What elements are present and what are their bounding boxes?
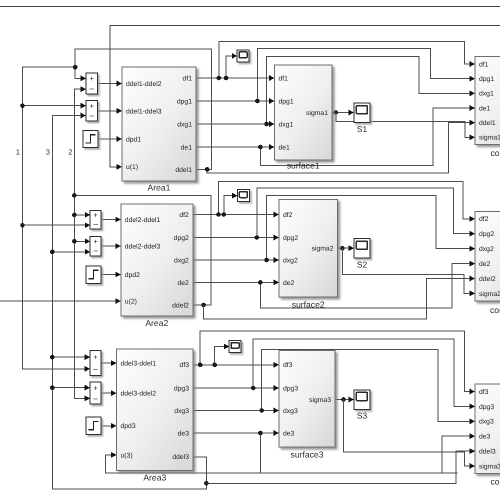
svg-text:surface3: surface3 — [291, 450, 324, 460]
arrowhead into Sum3a minus port — [85, 366, 90, 372]
arrowhead into surface3 dpg3 port — [274, 385, 279, 391]
arrowhead into Sum3b plus port — [85, 385, 90, 391]
scope block T1 — [237, 50, 249, 62]
arrowhead into Area1 in2 — [117, 108, 122, 114]
svg-text:S1: S1 — [357, 124, 368, 134]
svg-text:2: 2 — [68, 148, 72, 157]
junction dpg2 junction — [254, 235, 259, 240]
wire de3 branch to controller3 — [260, 433, 475, 473]
junction df1 junction a — [217, 76, 222, 81]
svg-text:ddel3: ddel3 — [172, 454, 189, 461]
svg-text:–: – — [93, 246, 98, 255]
wire ddel1 to Sum1b plus — [23, 105, 87, 107]
wire ddel3 to Sum3b plus — [52, 387, 90, 389]
wire step2 output to Area2 — [101, 274, 121, 276]
svg-text:Area1: Area1 — [148, 183, 171, 193]
junction dxg2 junction — [264, 258, 269, 263]
arrowhead into surface1 df1 port — [269, 75, 274, 81]
arrowhead into surface3 df3 port — [274, 362, 279, 368]
svg-text:ddel1: ddel1 — [175, 167, 192, 174]
svg-text:de2: de2 — [283, 280, 295, 287]
svg-text:sigma1: sigma1 — [479, 135, 500, 142]
subsystem block controller1 — [475, 57, 500, 145]
junction line2 tap row2b — [72, 239, 77, 244]
subsystem block controller3 — [475, 384, 500, 473]
junction sigma3 junction — [341, 397, 346, 402]
subsystem block Area2 — [121, 204, 193, 316]
wire ddel2 up branch to Sum1a minus — [74, 89, 86, 195]
svg-text:dpg3: dpg3 — [283, 385, 298, 392]
svg-text:df3: df3 — [479, 389, 489, 396]
arrowhead into controller3 ddel3 port — [470, 448, 475, 454]
svg-text:+: + — [94, 211, 98, 220]
svg-text:Area3: Area3 — [143, 473, 166, 483]
arrowhead into controller2 dxg2 port — [470, 246, 475, 252]
svg-text:surface2: surface2 — [292, 299, 325, 309]
arrowhead into controller1 sigma1 port — [470, 134, 475, 140]
subsystem block surface3 — [279, 351, 335, 448]
arrowhead into Sum1a plus port — [81, 76, 86, 82]
wire ddel2 to Sum2a plus — [74, 214, 90, 216]
wire dpg3 branch to controller3 — [253, 339, 475, 406]
svg-text:dpg3: dpg3 — [479, 404, 494, 411]
wire u2 feedback into Area2 — [0, 300, 121, 302]
svg-text:–: – — [93, 219, 98, 228]
svg-text:sigma3: sigma3 — [479, 463, 500, 470]
svg-text:ddel3-ddel2: ddel3-ddel2 — [121, 391, 157, 398]
arrowhead into scope S1 input — [349, 110, 354, 116]
wire sigma2 branch to controller2 — [342, 248, 475, 293]
wire de3 to surface3 — [193, 432, 279, 434]
wire ddel2 to Sum2b plus — [74, 240, 90, 242]
junction df2 junction a — [216, 212, 221, 217]
svg-text:–: – — [90, 84, 95, 93]
junction ddel1 split — [73, 65, 78, 70]
arrowhead into controller3 df3 port — [470, 389, 475, 395]
svg-text:df2: df2 — [283, 212, 293, 219]
sum block Sum1a — [86, 73, 98, 94]
wire sigma1 branch to controller1 — [336, 113, 475, 138]
wire dxg3 to surface3 — [193, 410, 279, 412]
step source block Step3 dpd3 — [86, 417, 101, 434]
svg-text:dxg1: dxg1 — [177, 121, 192, 128]
arrowhead into scope S3 input — [349, 397, 354, 403]
wire de2 branch to controller2 — [260, 264, 475, 309]
svg-text:sigma2: sigma2 — [312, 246, 334, 253]
svg-text:controller2: controller2 — [490, 305, 500, 315]
wire dpg1 to surface1 — [196, 100, 275, 102]
sum block Sum2b — [90, 237, 101, 256]
wire sum1b output to Area1 — [98, 110, 123, 112]
arrowhead into Area3 in2 — [111, 390, 116, 396]
arrowhead into Sum3a plus port — [85, 354, 90, 360]
svg-text:sigma3: sigma3 — [309, 397, 331, 404]
svg-text:ddel2: ddel2 — [479, 276, 496, 283]
svg-text:df2: df2 — [479, 216, 489, 223]
arrowhead into controller2 df2 port — [470, 216, 475, 222]
arrowhead into scope T1 input — [232, 53, 237, 59]
arrowhead into controller1 dpg1 port — [470, 76, 475, 82]
arrowhead into Sum2b plus port — [85, 238, 90, 244]
wire sigma1 to scope S1 — [332, 112, 354, 114]
svg-text:dxg1: dxg1 — [279, 121, 294, 128]
junction ddel2 junction — [201, 303, 206, 308]
svg-text:sigma1: sigma1 — [306, 110, 328, 117]
scope block S1 — [354, 103, 370, 123]
svg-text:dxg2: dxg2 — [174, 257, 189, 264]
wire dxg2 to surface2 — [193, 259, 279, 261]
arrowhead into Area1 in3 — [117, 136, 122, 142]
wire sum3b output to Area3 — [101, 392, 117, 394]
sum block Sum3a — [90, 351, 101, 376]
svg-text:3: 3 — [46, 148, 50, 157]
wire step1 output to Area1 — [98, 138, 122, 140]
svg-text:de1: de1 — [479, 105, 491, 112]
svg-text:ddel2: ddel2 — [172, 302, 189, 309]
arrowhead into controller1 ddel1 port — [470, 120, 475, 126]
svg-text:de2: de2 — [177, 280, 189, 287]
svg-text:de3: de3 — [178, 430, 190, 437]
svg-text:dpg3: dpg3 — [174, 385, 189, 392]
arrowhead into Area2 u(2) port — [115, 298, 120, 304]
junction de1 junction — [258, 145, 263, 150]
wire ddel1 branch to line 1 — [23, 67, 91, 369]
sum block Sum3b — [90, 382, 101, 404]
svg-text:dxg2: dxg2 — [283, 257, 298, 264]
arrowhead into controller2 de2 port — [470, 261, 475, 267]
arrowhead into surface2 de2 port — [274, 280, 279, 286]
svg-text:de3: de3 — [283, 430, 295, 437]
svg-text:controller1: controller1 — [491, 148, 500, 158]
svg-text:dxg2: dxg2 — [479, 246, 494, 253]
wire ddel1 to controller1 — [207, 123, 475, 173]
arrowhead into controller3 dpg3 port — [470, 404, 475, 410]
wire df2 to surface2 — [193, 214, 279, 216]
svg-text:+: + — [90, 101, 94, 110]
junction line3 tap row2 — [50, 250, 55, 255]
wire u3 feedback into Area3 — [106, 455, 458, 473]
subsystem block surface1 — [275, 65, 333, 160]
wire sum3a output to Area3 — [101, 362, 117, 364]
wire de2 to surface2 — [193, 281, 279, 283]
svg-text:dpd3: dpd3 — [121, 423, 136, 430]
junction df3 junction a — [198, 363, 203, 368]
arrowhead into controller2 sigma2 port — [470, 291, 475, 297]
arrowhead into surface2 df2 port — [274, 212, 279, 218]
arrowhead into surface3 de3 port — [274, 430, 279, 436]
wire ddel2 loop from Area2 output — [74, 195, 211, 398]
junction df3 junction b — [212, 363, 217, 368]
svg-text:1: 1 — [16, 148, 20, 157]
svg-text:de3: de3 — [479, 434, 491, 441]
wire df3 branch to controller3 — [200, 331, 475, 392]
sum block Sum2a — [90, 210, 101, 229]
wire ddel3 to Sum2b minus — [52, 251, 90, 253]
svg-text:ddel2-ddel3: ddel2-ddel3 — [125, 244, 161, 251]
wire df2 branch to scope T2 — [224, 196, 238, 215]
arrowhead into Sum1b plus port — [81, 103, 86, 109]
svg-text:df1: df1 — [183, 75, 193, 82]
arrowhead into controller2 dpg2 port — [470, 231, 475, 237]
arrowhead into Area1 u(1) port — [117, 164, 122, 170]
junction dpg3 junction — [251, 386, 256, 391]
svg-text:–: – — [90, 111, 95, 120]
wire sum2b output to Area2 — [101, 245, 121, 247]
scope block S3 — [354, 390, 370, 410]
svg-text:de2: de2 — [479, 261, 491, 268]
svg-text:surface1: surface1 — [287, 161, 320, 171]
scope block T3 — [229, 341, 241, 353]
wire de1 to surface1 — [196, 146, 275, 148]
wire dxg2 branch to controller2 — [267, 196, 475, 261]
svg-text:dpg2: dpg2 — [283, 235, 298, 242]
wire df1 branch to scope T1 — [226, 56, 237, 78]
wire u2 feedback top segment — [0, 6, 500, 8]
wire df1 to surface1 — [196, 77, 275, 79]
arrowhead into controller1 df1 port — [470, 61, 475, 67]
svg-text:+: + — [93, 352, 97, 361]
arrowhead into surface2 dpg2 port — [274, 235, 279, 241]
svg-text:df1: df1 — [279, 75, 289, 82]
junction line3 tap row3b — [50, 385, 55, 390]
subsystem block Area1 — [122, 67, 196, 181]
arrowhead into surface1 dpg1 port — [269, 98, 274, 104]
scope block T2 — [238, 190, 250, 202]
arrowhead into Sum2a plus port — [85, 212, 90, 218]
wire de1 branch to controller1 — [260, 108, 475, 166]
svg-text:dpg1: dpg1 — [177, 98, 192, 105]
wire df2 branch to controller2 — [219, 181, 476, 219]
arrowhead into controller2 ddel2 port — [470, 276, 475, 282]
arrowhead into Area3 in3 — [111, 423, 116, 429]
junction ddel2 split — [72, 193, 77, 198]
wire ddel3 to Sum3a plus — [52, 356, 90, 358]
junction sigma1 junction — [334, 110, 339, 115]
wire dxg3 branch to controller3 — [262, 350, 475, 422]
svg-text:ddel3: ddel3 — [479, 449, 496, 456]
svg-text:dpg2: dpg2 — [174, 235, 189, 242]
svg-text:S2: S2 — [357, 260, 368, 270]
arrowhead into controller3 dxg3 port — [470, 418, 475, 424]
junction dpg1 junction — [255, 99, 260, 104]
arrowhead into surface1 dxg1 port — [269, 121, 274, 127]
svg-text:ddel1: ddel1 — [479, 120, 496, 127]
arrowhead into scope T3 input — [224, 344, 229, 350]
junction de3 junction — [258, 431, 263, 436]
wire ddel1 loop from Area1 output — [75, 49, 211, 169]
svg-text:+: + — [94, 237, 98, 246]
junction ddel3 junction — [204, 481, 209, 486]
wire dpg1 branch to controller1 — [257, 48, 475, 101]
arrowhead into Sum3b minus port — [85, 396, 90, 402]
svg-text:df3: df3 — [180, 362, 190, 369]
step source block Step1 dpd1 — [83, 131, 98, 148]
arrowhead into surface2 dxg2 port — [274, 257, 279, 263]
svg-text:df2: df2 — [179, 212, 189, 219]
svg-text:u(1): u(1) — [126, 164, 138, 171]
arrowhead into surface1 de1 port — [269, 144, 274, 150]
wire ddel2 to controller2 — [204, 279, 475, 320]
svg-text:–: – — [93, 394, 98, 403]
subsystem block controller2 — [475, 211, 500, 300]
svg-text:Area2: Area2 — [145, 318, 168, 328]
junction line1 tap row2 — [20, 223, 25, 228]
wire dxg1 branch to controller1 — [267, 56, 475, 124]
svg-text:df3: df3 — [283, 362, 293, 369]
svg-text:dpg1: dpg1 — [479, 76, 494, 83]
svg-text:–: – — [93, 365, 98, 374]
subsystem block Area3 — [117, 349, 194, 471]
junction df2 junction b — [222, 212, 227, 217]
svg-text:dpd2: dpd2 — [125, 272, 140, 279]
sum block Sum1b — [86, 101, 98, 121]
junction sigma2 junction — [340, 246, 345, 251]
arrowhead into Sum1a minus port — [81, 86, 86, 92]
junction line1 tap row1 — [20, 103, 25, 108]
arrowhead into Sum2b minus port — [85, 249, 90, 255]
svg-text:dpd1: dpd1 — [126, 136, 141, 143]
svg-text:ddel2-ddel1: ddel2-ddel1 — [125, 217, 161, 224]
svg-text:dpg2: dpg2 — [479, 231, 494, 238]
junction de2 junction — [258, 280, 263, 285]
wire ddel3 loop from Area3 output — [52, 116, 206, 489]
svg-text:dxg3: dxg3 — [479, 419, 494, 426]
svg-text:controller3: controller3 — [491, 477, 500, 487]
arrowhead into controller3 de3 port — [470, 433, 475, 439]
arrowhead into controller1 dxg1 port — [470, 90, 475, 96]
arrowhead into Area1 in1 — [117, 81, 122, 87]
arrowhead into Area3 in1 — [111, 360, 116, 366]
junction line2 tap row2a — [72, 213, 77, 218]
junction dxg1 junction — [264, 122, 269, 127]
arrowhead into controller1 de1 port — [470, 105, 475, 111]
wire u1 feedback from controller1 — [110, 26, 500, 167]
wire sum1a output to Area1 — [98, 83, 123, 85]
svg-text:de1: de1 — [279, 144, 291, 151]
arrowhead into surface3 dxg3 port — [274, 408, 279, 414]
wire sigma3 branch to controller3 — [344, 400, 476, 467]
wire dxg1 to surface1 — [196, 123, 275, 125]
svg-text:dxg3: dxg3 — [283, 408, 298, 415]
arrowhead into Area3 u(3) port — [111, 452, 116, 458]
wire sigma2 to scope S2 — [338, 247, 355, 249]
svg-text:S3: S3 — [357, 411, 368, 421]
svg-text:de1: de1 — [181, 144, 193, 151]
junction ddel1 junction — [205, 167, 210, 172]
svg-text:dxg1: dxg1 — [479, 91, 494, 98]
wire dpg3 to surface3 — [193, 387, 279, 389]
svg-text:+: + — [93, 383, 97, 392]
svg-text:dpg1: dpg1 — [279, 98, 294, 105]
wire sigma3 to scope S3 — [335, 399, 354, 401]
subsystem block surface2 — [279, 200, 338, 298]
arrowhead into Area2 in3 — [115, 272, 120, 278]
junction line3 tap row3a — [50, 355, 55, 360]
svg-text:df1: df1 — [479, 61, 489, 68]
wire sum2a output to Area2 — [101, 219, 121, 221]
svg-text:ddel1-ddel2: ddel1-ddel2 — [126, 81, 162, 88]
svg-text:u(3): u(3) — [121, 452, 133, 459]
svg-text:sigma2: sigma2 — [479, 291, 500, 298]
arrowhead into scope S2 input — [349, 245, 354, 251]
arrowhead into Sum2a minus port — [85, 222, 90, 228]
svg-text:ddel3-ddel1: ddel3-ddel1 — [121, 361, 157, 368]
wire dpg2 to surface2 — [193, 237, 279, 239]
arrowhead into Sum1b minus port — [81, 113, 86, 119]
wire ddel3 to controller3 — [206, 451, 475, 483]
svg-text:ddel1-ddel3: ddel1-ddel3 — [126, 108, 162, 115]
wire df1 branch to controller1 — [219, 42, 475, 79]
step source block Step2 dpd2 — [86, 266, 101, 283]
arrowhead into Area2 in2 — [115, 243, 120, 249]
arrowhead into controller3 sigma3 port — [470, 463, 475, 469]
svg-text:+: + — [90, 74, 94, 83]
arrowhead into Area2 in1 — [115, 217, 120, 223]
wire dpg2 branch to controller2 — [257, 188, 475, 237]
wire df3 branch to scope T3 — [215, 347, 230, 365]
wire step3 output to Area3 — [101, 425, 117, 427]
junction dxg3 junction — [259, 408, 264, 413]
wire ddel1 to Sum2a minus — [23, 224, 91, 226]
scope block S2 — [354, 239, 370, 259]
svg-text:u(2): u(2) — [125, 299, 137, 306]
svg-text:dxg3: dxg3 — [174, 408, 189, 415]
junction df1 junction b — [224, 76, 229, 81]
wire df3 to surface3 — [193, 364, 279, 366]
arrowhead into scope T2 input — [232, 193, 237, 199]
